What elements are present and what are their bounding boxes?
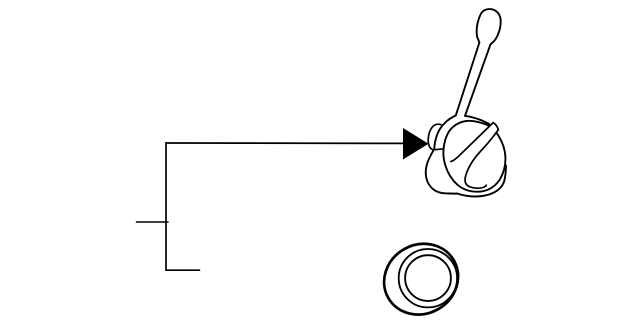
- arrowhead: [403, 128, 429, 160]
- gasket outer ellipse: [371, 230, 471, 325]
- leader vertical line: [165, 143, 167, 271]
- gasket ring circle: [399, 249, 457, 307]
- wing grip white fill (occludes face edge): [451, 123, 498, 176]
- cap left tab: [428, 124, 441, 150]
- wing grip lower edge with bottom sweep: [465, 130, 498, 188]
- cap handle bulb and stem: [456, 9, 501, 116]
- gasket inner circle: [405, 255, 451, 301]
- cap outer silhouette left of stem: [434, 115, 456, 149]
- cap top face: [443, 121, 505, 192]
- cap bottom rim arc: [458, 166, 507, 197]
- cap lower-left skirt: [426, 150, 458, 194]
- tab bottom line: [434, 149, 444, 150]
- cap outer silhouette right of stem: [465, 116, 490, 125]
- wing grip top end: [493, 123, 498, 130]
- leader tick left: [137, 221, 169, 223]
- wing grip upper edge with hook: [451, 123, 493, 162]
- leader horizontal line: [166, 142, 405, 144]
- leader bottom stub: [166, 269, 200, 271]
